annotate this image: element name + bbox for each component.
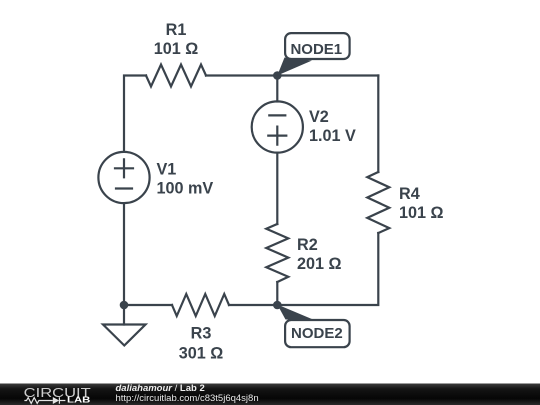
resistor R1 <box>146 65 206 87</box>
svg-text:V2: V2 <box>309 108 329 126</box>
svg-text:V1: V1 <box>157 160 177 178</box>
svg-text:101 Ω: 101 Ω <box>154 40 199 58</box>
svg-text:R4: R4 <box>399 185 420 203</box>
wire top-left corner to R1 <box>124 76 146 152</box>
node NODE2 flag pointer <box>277 305 313 320</box>
resistor R3 <box>172 294 229 316</box>
svg-text:201 Ω: 201 Ω <box>297 255 342 273</box>
wire ground node to R3 <box>124 304 172 306</box>
wire R1 to node A to right corner <box>206 74 378 76</box>
svg-text:NODE2: NODE2 <box>291 325 343 342</box>
V1 minus sign <box>116 187 132 189</box>
svg-text:R1: R1 <box>166 21 187 39</box>
V1 plus sign <box>115 159 133 177</box>
voltage source V2 <box>252 101 303 152</box>
V2 plus sign <box>268 127 286 145</box>
node NODE1 flag pointer <box>277 58 312 76</box>
CircuitLab logo resistor-diode glyph <box>24 397 65 404</box>
svg-text:LAB: LAB <box>67 394 90 404</box>
svg-text:R2: R2 <box>297 236 318 254</box>
svg-text:301 Ω: 301 Ω <box>179 345 224 363</box>
footer bar <box>0 384 540 405</box>
svg-text:http://circuitlab.com/c83t5j6q: http://circuitlab.com/c83t5j6q4sj8n <box>116 393 259 404</box>
svg-text:NODE1: NODE1 <box>290 41 342 58</box>
resistor R4 <box>367 172 389 233</box>
svg-text:101 Ω: 101 Ω <box>399 204 444 222</box>
wire right vertical top to R4 <box>377 76 379 173</box>
svg-text:100 mV: 100 mV <box>157 180 214 198</box>
wire node A to V2 <box>276 76 278 102</box>
svg-text:R3: R3 <box>191 325 212 343</box>
wire V1 bottom to ground node <box>123 203 125 305</box>
wire R2 to node B <box>276 282 278 305</box>
V2 minus sign <box>269 114 285 116</box>
ground symbol <box>103 325 146 346</box>
svg-text:1.01 V: 1.01 V <box>309 127 356 145</box>
wire R3 to node B <box>229 304 277 306</box>
node NODE2 flag box <box>285 320 350 347</box>
node A junction dot <box>273 71 282 80</box>
node B junction dot <box>273 301 282 310</box>
voltage source V1 <box>98 152 149 203</box>
node NODE1 flag box <box>285 33 350 59</box>
resistor R2 <box>266 224 288 282</box>
ground stem <box>123 305 125 325</box>
wire V2 to R2 <box>276 153 278 224</box>
ground junction dot <box>120 301 129 310</box>
wire R4 to bottom-right corner <box>277 233 378 305</box>
